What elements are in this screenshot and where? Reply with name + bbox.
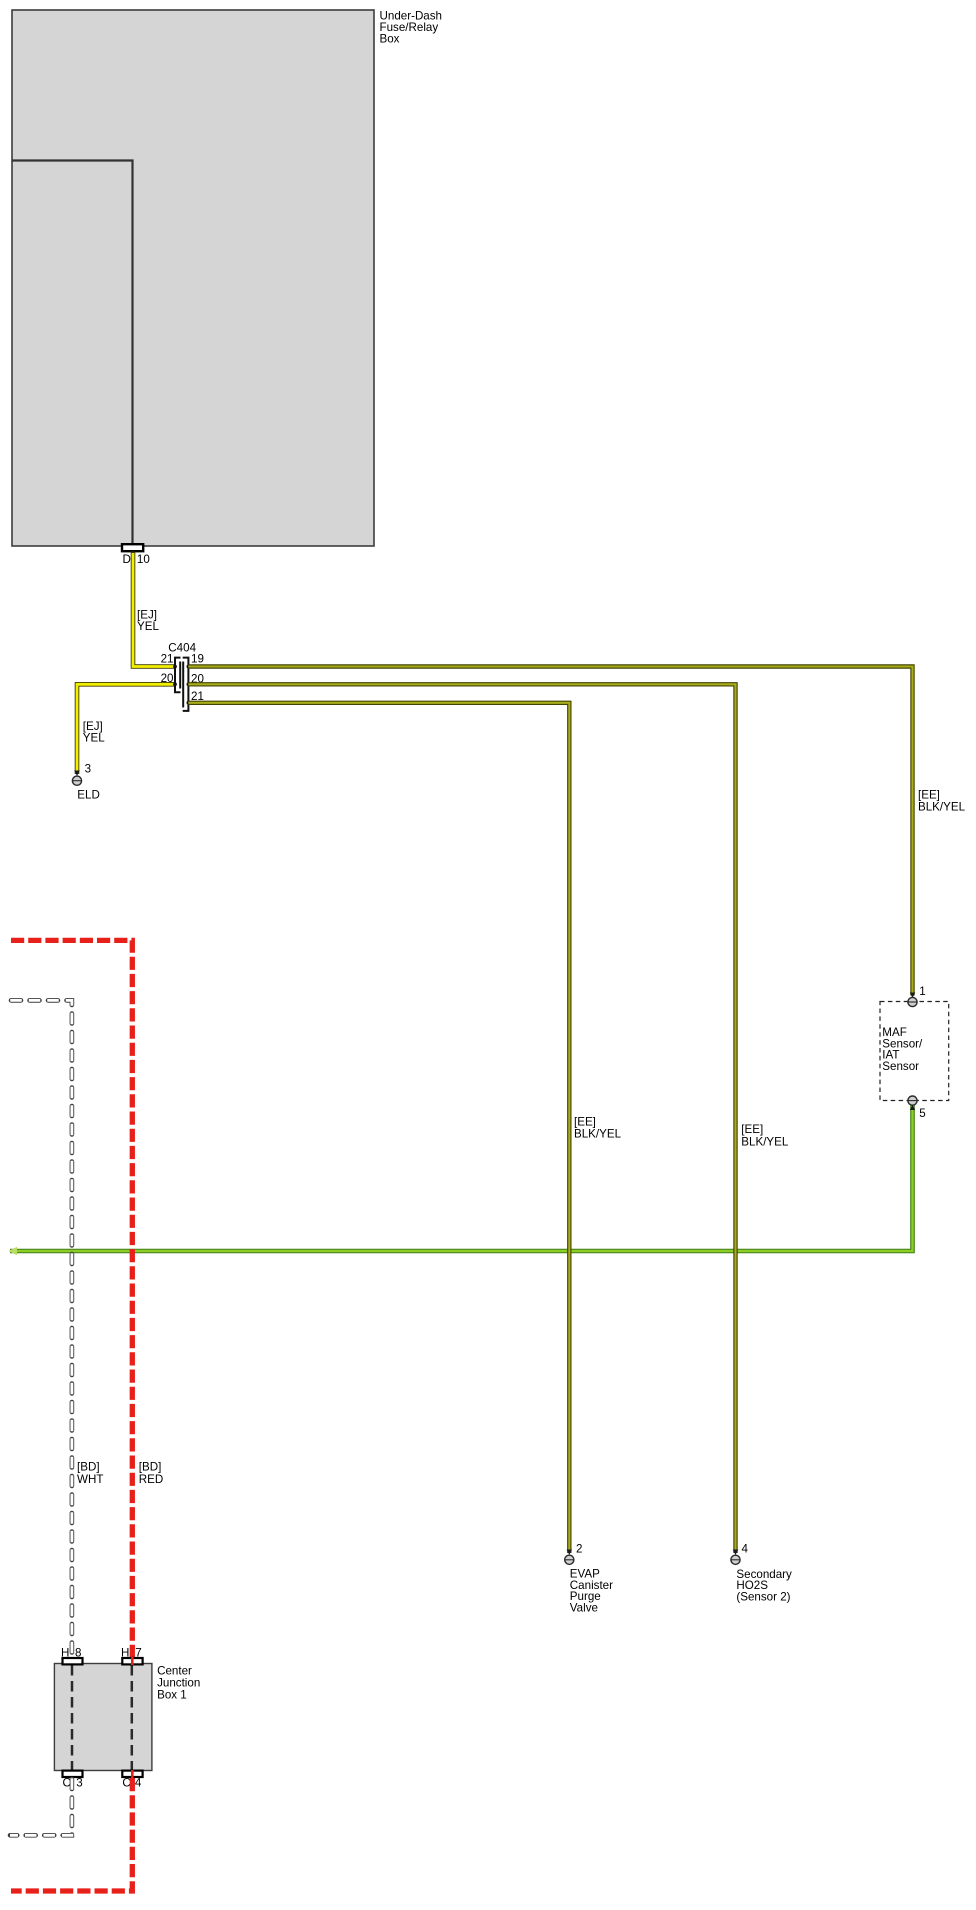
wire olive BLK/YEL row1 to MAF pin1 — [188, 667, 912, 996]
svg-text:BLK/YEL: BLK/YEL — [918, 801, 966, 814]
svg-text:1: 1 — [919, 985, 925, 998]
svg-text:C: C — [122, 1777, 130, 1790]
svg-text:19: 19 — [191, 653, 204, 666]
C404 right half bracket — [183, 658, 189, 711]
wire olive BLK/YEL row2 to HO2S — [188, 684, 735, 1553]
svg-text:Box 1: Box 1 — [157, 1688, 187, 1701]
svg-text:BLK/YEL: BLK/YEL — [574, 1128, 622, 1141]
svg-text:20: 20 — [161, 672, 174, 685]
C404 junction dots — [173, 665, 190, 705]
terminal 3 ELD — [72, 776, 81, 785]
svg-text:2: 2 — [576, 1543, 582, 1556]
arrowhead into HO2S — [733, 1550, 738, 1556]
terminal 1 MAF — [908, 997, 917, 1006]
svg-text:[EE]: [EE] — [741, 1123, 763, 1136]
arrowhead up into MAF pin5 — [910, 1105, 915, 1110]
wire white BD dashed top — [9, 1000, 72, 1664]
svg-text:YEL: YEL — [137, 620, 159, 633]
svg-text:BLK/YEL: BLK/YEL — [741, 1135, 789, 1148]
svg-text:21: 21 — [161, 653, 174, 666]
MAF sensor dashed box — [880, 1002, 949, 1101]
connector C3 — [63, 1771, 83, 1777]
svg-text:[EE]: [EE] — [918, 788, 940, 801]
wire red BD dashed top — [11, 940, 132, 1664]
wire yellow EJ from C404 row2 to ELD — [77, 684, 175, 774]
svg-text:3: 3 — [85, 763, 91, 776]
svg-text:YEL: YEL — [83, 732, 105, 745]
terminal 4 HO2S — [731, 1555, 740, 1564]
wire olive BLK/YEL row3 to EVAP — [188, 703, 569, 1553]
arrowhead into EVAP valve — [567, 1550, 572, 1556]
wire internal dark from left edge to D10 — [12, 161, 133, 545]
connector D10 — [122, 544, 143, 551]
connector H7 — [122, 1658, 142, 1664]
arrowhead into ELD — [74, 771, 79, 777]
svg-text:[BD]: [BD] — [139, 1461, 162, 1474]
svg-text:7: 7 — [135, 1646, 141, 1659]
svg-text:D: D — [123, 553, 131, 566]
green wire left arrow tip — [9, 1247, 18, 1255]
svg-text:WHT: WHT — [77, 1473, 103, 1486]
svg-text:3: 3 — [76, 1777, 82, 1790]
arrowhead into MAF pin1 — [910, 993, 915, 999]
svg-text:[BD]: [BD] — [77, 1461, 100, 1474]
svg-text:ELD: ELD — [77, 789, 100, 802]
wire red BD dashed bottom — [11, 1778, 132, 1891]
svg-text:Valve: Valve — [570, 1602, 598, 1615]
svg-text:[EE]: [EE] — [574, 1115, 596, 1128]
wire red segment through H7 — [131, 1657, 134, 1665]
wire white BD dashed bottom — [10, 1777, 72, 1835]
wire dashed black inside box right — [131, 1665, 134, 1770]
terminal 2 EVAP — [565, 1555, 574, 1564]
center junction box 1 — [54, 1664, 151, 1771]
svg-text:RED: RED — [139, 1473, 163, 1486]
svg-text:H: H — [121, 1646, 129, 1659]
wire green GRN from MAF pin5 across page — [10, 1105, 913, 1251]
wire yellow EJ from D10 to C404 row1 — [133, 552, 175, 667]
svg-text:4: 4 — [135, 1777, 142, 1790]
svg-text:Sensor: Sensor — [882, 1060, 919, 1073]
wire red segment through C4 — [131, 1770, 134, 1778]
svg-text:8: 8 — [75, 1646, 81, 1659]
svg-text:(Sensor 2): (Sensor 2) — [736, 1591, 790, 1604]
svg-text:5: 5 — [919, 1107, 925, 1120]
wire dashed black inside box left — [71, 1665, 74, 1770]
under-dash fuse/relay box — [12, 10, 374, 546]
svg-text:4: 4 — [742, 1543, 749, 1556]
svg-text:Box: Box — [380, 33, 400, 46]
terminal 5 MAF — [908, 1096, 917, 1105]
connector C4 — [122, 1771, 142, 1777]
connector H8 — [63, 1658, 83, 1664]
C404 left half bracket — [175, 658, 181, 693]
svg-text:10: 10 — [137, 553, 150, 566]
svg-text:H: H — [61, 1646, 69, 1659]
